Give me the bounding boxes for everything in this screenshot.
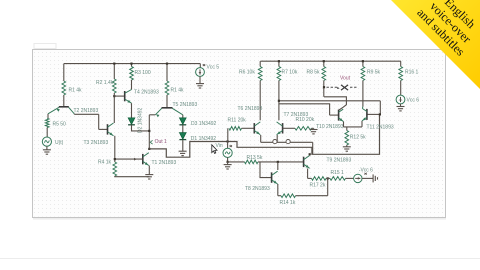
ground R10 right [313,128,315,129]
source U1 sine [42,137,51,146]
wire T1 base with arrow [115,158,143,160]
ground below U1 [46,146,48,149]
node Vin bottom [227,161,229,163]
resistor R1 mid 4k [166,64,168,81]
node D2 join [148,130,150,132]
svg-text:T1 2N1893: T1 2N1893 [152,160,177,166]
svg-text:T10 2N1893: T10 2N1893 [316,124,344,130]
transistor T3 [107,124,109,134]
svg-text:D2 1N3492: D2 1N3492 [138,107,144,133]
node rail R8 [323,60,325,62]
svg-text:R1 4k: R1 4k [171,88,185,94]
svg-text:Vcc 5: Vcc 5 [207,65,220,71]
wire R5 to U1 [46,128,48,138]
node rail R7 [278,60,280,62]
svg-text:R2 1.4k: R2 1.4k [96,80,114,86]
transistor T11 mirrored [367,113,380,115]
svg-text:R16 1: R16 1 [405,70,419,76]
svg-text:R12 5k: R12 5k [350,135,366,141]
svg-text:R17 2k: R17 2k [310,182,326,188]
wire T3 collector up [113,96,115,123]
transistor T4 [114,95,124,97]
node rail-R2 [113,63,115,65]
svg-text:R6 10k: R6 10k [239,70,255,76]
polarity tick -Vcc6 [364,173,366,175]
ribbon text English voice-over and subtitles [414,0,480,59]
wire T3 emitter down [114,136,116,162]
resistor R3 100 [131,64,133,67]
svg-text:Vout: Vout [340,76,351,82]
svg-text:T11 2N1893: T11 2N1893 [367,124,394,130]
node T11 base [379,113,381,115]
resistor R2 1.4k [113,64,115,79]
svg-text:Vin: Vin [216,143,223,149]
resistor R6 10k [259,61,261,66]
wire T5 emitter left [149,114,155,116]
wire R8 branch to T10 collector [324,97,346,110]
svg-text:Out 1: Out 1 [155,139,167,145]
svg-text:R11 20k: R11 20k [228,118,247,124]
svg-text:T4 2N1893: T4 2N1893 [134,90,159,96]
svg-text:R1 4k: R1 4k [69,88,83,94]
resistor R12 5k [345,131,349,146]
svg-text:T8 2N1893: T8 2N1893 [245,186,270,192]
svg-text:R7 10k: R7 10k [282,70,298,76]
ground sideways [372,174,374,182]
svg-text:R8 5k: R8 5k [307,70,321,76]
current source Vcc 5 [196,68,205,77]
resistor R15 1 [326,177,330,179]
page bottom divider line [0,258,480,260]
current source Vcc 6 [396,95,405,104]
node rail-R1mid [166,63,168,65]
wire R11 left drop [227,128,229,141]
wire T10 emitter down [343,122,345,127]
resistor R8 5k [323,61,325,66]
resistor R10 20k [295,127,312,131]
wire Vcc top rail right [260,60,401,62]
wire Vcc top rail left [64,63,201,65]
wire T7 collector bus to T11 base [279,100,380,102]
diode D2 1N3492 [128,118,135,125]
svg-text:T5 2N1893: T5 2N1893 [173,102,198,108]
wire emitter bus with hops [261,141,313,143]
transistor T10 [330,114,339,116]
resistor R7 10k [278,61,280,66]
wire R12 drop [346,127,348,131]
wire T2 emitter to R5 [47,114,49,119]
resistor R14 1k [278,195,281,197]
wire T5 collector to D3 [182,115,184,118]
svg-text:Vcc 6: Vcc 6 [407,98,420,104]
resistor R4 1k [113,162,117,176]
wire emitter join T10 T11 [344,126,363,128]
svg-text:U(t): U(t) [55,140,64,146]
ground below Vin [227,162,229,165]
resistor R17 2k [312,177,327,181]
wire Out1 to bus [149,114,379,157]
ground below R12 [346,145,348,147]
transistor T6 [253,123,255,133]
transistor T7 mirrored [282,123,284,133]
wire D3-D1 [182,125,184,133]
svg-text:T2 2N1893: T2 2N1893 [74,108,99,114]
yellow corner ribbon [391,0,480,89]
node T3-R2-T4 junction [113,95,115,97]
wire T11 emitter down [361,121,363,127]
wire R14 up to R15 node [327,178,329,195]
svg-text:R15 1: R15 1 [331,170,345,176]
node probe attach [323,86,325,88]
node T1 base-R4 [114,158,116,160]
current source -Vcc 6 [354,174,362,182]
resistor R13 5k [228,161,245,163]
node rail R9 [362,60,364,62]
ground below Vcc5 [199,76,201,83]
probe X mark [341,85,348,90]
node bus-Vin [227,140,229,142]
resistor R9 5k [362,61,364,66]
wire T4 emitter to D2 [131,103,133,118]
wire T7 base to R10 [283,127,295,129]
svg-text:R5 50: R5 50 [53,122,67,128]
node rail-R3 [130,63,132,65]
node R13-T8coll [277,161,279,163]
transistor T8 [271,172,273,182]
transistor T5 rotated [162,107,173,109]
resistor R11 20k [229,127,242,131]
node T1 collector junction [148,148,150,150]
wire T6 emitter down [260,135,262,142]
svg-text:R3 100: R3 100 [135,70,151,76]
svg-text:R4 1k: R4 1k [98,160,112,166]
wire D2 cathode bend [132,125,150,131]
wire T8 emitter down [277,184,279,196]
ground below D1 [182,140,184,151]
schematic canvas panel [33,50,446,218]
mouse cursor [212,145,217,154]
ground below Vcc6 [400,104,402,106]
svg-text:T6 2N1893: T6 2N1893 [238,106,263,112]
svg-text:R14 1k: R14 1k [280,200,296,206]
net flag Out 1 [150,140,152,144]
diode D1 1N3492 [179,133,186,140]
transistor T2 Q-rotated [63,104,65,106]
wire hop circle 2 [286,140,290,144]
wire T8 base branch [260,162,272,178]
svg-text:R9 5k: R9 5k [367,70,381,76]
wire hop circle 1 [273,140,277,144]
wire Vin top [227,142,229,149]
polarity tick Vcc5 [203,64,205,66]
wire T7 emitter down [276,135,278,142]
transistor T1 [142,154,144,164]
wire bus2 to T10 base [279,104,330,115]
wire T11 collector up [361,107,364,109]
resistor R5 50 [45,118,49,127]
wire T8 collector up [277,162,279,170]
node R17-R15-R14 [327,177,329,179]
svg-text:T3 2N1893: T3 2N1893 [84,140,109,146]
resistor R1 (left) [63,64,65,81]
svg-text:R13 5k: R13 5k [247,155,263,161]
diode D3 1N3492 [179,118,186,125]
wire rail to I Vcc5 [199,64,201,68]
resistor R16 1 [400,61,402,66]
probe dashed lead [327,86,339,88]
wire T9 emitter down [307,169,309,179]
node T9 collector on bus [309,153,311,155]
svg-text:D3 1N3492: D3 1N3492 [191,121,217,127]
source Vin sine [223,148,232,157]
node T7 collector bus [278,100,280,102]
transistor T9 [303,157,305,167]
ground below T1 [148,166,150,175]
polarity tick Vin [230,145,232,147]
svg-text:T9 2N1893: T9 2N1893 [327,157,352,163]
wire Vin bottom [227,158,229,162]
svg-text:R10 20k: R10 20k [296,117,315,123]
wire to side ground [362,177,373,179]
svg-text:-Vcc 6: -Vcc 6 [359,167,373,173]
wire T2 collector run [73,113,75,116]
